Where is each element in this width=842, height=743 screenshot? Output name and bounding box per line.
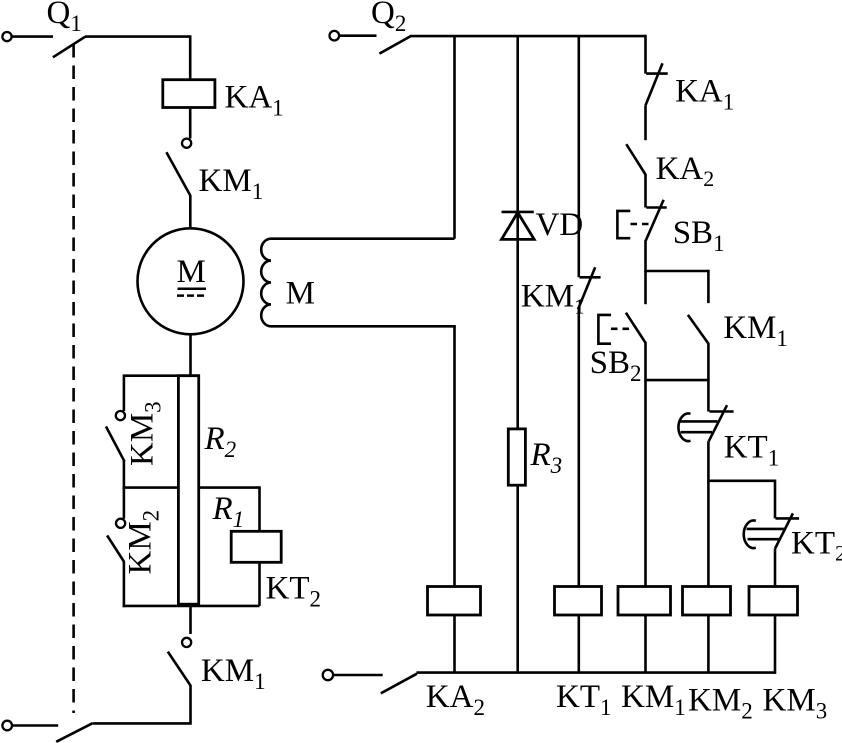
field winding M bbox=[261, 239, 456, 327]
wire bbox=[707, 481, 710, 587]
wire bbox=[12, 724, 58, 727]
svg-text:KM1: KM1 bbox=[723, 310, 788, 351]
contact KM1 (left column lower) bbox=[168, 652, 191, 686]
contact KT1 tick bar bbox=[709, 410, 733, 413]
wire bbox=[644, 343, 647, 381]
wire bbox=[12, 35, 53, 38]
node line top of resistor block bbox=[124, 374, 199, 377]
wire KT1 contact branch bbox=[707, 379, 710, 412]
contact KT2 delay arc bbox=[744, 520, 756, 548]
relay coil KT1 bbox=[555, 587, 602, 616]
contact KM1 NC blade bbox=[578, 267, 595, 309]
svg-text:SB1: SB1 bbox=[673, 215, 725, 256]
node line middle left bbox=[123, 486, 179, 489]
wire bbox=[516, 485, 519, 672]
wire bbox=[123, 374, 126, 411]
bottom bus wire bbox=[417, 671, 776, 674]
relay coil KM3 bbox=[749, 587, 798, 616]
svg-text:KM1: KM1 bbox=[199, 163, 264, 204]
svg-text:KM3: KM3 bbox=[763, 683, 828, 724]
relay coil KA2 bbox=[428, 587, 481, 616]
wire bbox=[644, 105, 647, 140]
contact terminal circle bbox=[182, 139, 191, 148]
contact KT1 delay chords bbox=[679, 421, 717, 432]
wire bbox=[644, 174, 647, 208]
terminal lower-left bbox=[2, 721, 12, 731]
wire bbox=[189, 606, 192, 634]
svg-text:VD: VD bbox=[536, 207, 584, 243]
contact KT1 delay arc bbox=[678, 413, 690, 441]
wire bbox=[577, 309, 580, 586]
contact KM1 (left column upper) bbox=[166, 152, 190, 195]
svg-text:KM2: KM2 bbox=[123, 510, 164, 575]
wire KT2 contact branch bbox=[774, 480, 777, 519]
top bus wire bbox=[410, 35, 646, 38]
svg-text:KM1: KM1 bbox=[621, 679, 686, 720]
wire bbox=[93, 685, 191, 723]
node line KT2 branch bbox=[708, 479, 775, 482]
motor underline solid bbox=[178, 287, 207, 290]
button SB2 actuator dashed link bbox=[611, 327, 632, 330]
wire bbox=[774, 615, 777, 674]
wire bbox=[189, 108, 192, 139]
wire R1 branch bbox=[258, 486, 261, 531]
motor M armature circle bbox=[138, 228, 244, 334]
knife switch Q2 bbox=[379, 36, 410, 53]
contact KA1 NC tick bar bbox=[646, 72, 668, 75]
wire bbox=[707, 441, 710, 482]
contact KM1 NO blade bbox=[688, 315, 709, 344]
mechanical link dashed line bbox=[72, 44, 75, 713]
wire bbox=[123, 461, 126, 489]
relay coil KA1 bbox=[163, 80, 215, 108]
svg-text:Q2: Q2 bbox=[371, 0, 406, 36]
wire bbox=[644, 240, 647, 272]
node line middle right bbox=[199, 486, 260, 489]
button SB1 actuator bbox=[617, 211, 630, 238]
contact KT2 delay chords bbox=[747, 529, 784, 539]
button SB2 blade bbox=[626, 313, 646, 344]
relay coil KM2 bbox=[683, 587, 731, 616]
wire bbox=[707, 615, 710, 673]
wire bbox=[453, 326, 456, 586]
svg-text:SB2: SB2 bbox=[590, 345, 642, 386]
terminal upper-left bbox=[2, 32, 11, 41]
wire bbox=[258, 562, 261, 606]
svg-text:KA2: KA2 bbox=[656, 151, 715, 191]
contact terminal circle bbox=[116, 411, 125, 420]
contact KT2 blade bbox=[775, 513, 793, 548]
knife switch Q1 lower pole bbox=[56, 723, 92, 742]
contact KT1 blade bbox=[709, 405, 727, 441]
contact KA1 NC blade bbox=[646, 63, 663, 105]
contact KM1 NC tick bar bbox=[579, 276, 600, 279]
button SB1 actuator dashed link bbox=[631, 223, 653, 226]
contact terminal circle bbox=[182, 638, 191, 647]
svg-text:KA2: KA2 bbox=[426, 679, 485, 720]
svg-text:Q1: Q1 bbox=[47, 0, 82, 36]
svg-text:KA1: KA1 bbox=[675, 74, 734, 115]
contact KT2 tick bar bbox=[776, 517, 800, 520]
relay coil KM1 bbox=[618, 587, 671, 616]
svg-text:KT1: KT1 bbox=[724, 429, 780, 470]
wire bbox=[644, 380, 647, 586]
contact terminal circle bbox=[116, 519, 125, 528]
svg-text:KT1: KT1 bbox=[556, 679, 612, 720]
svg-text:KM2: KM2 bbox=[688, 683, 753, 724]
terminal lower-right bbox=[323, 670, 333, 680]
knife switch KA2 blade bbox=[381, 674, 417, 694]
node line bottom of resistor block bbox=[123, 605, 260, 608]
wire bbox=[644, 271, 647, 304]
wire bbox=[334, 674, 383, 677]
wire KA1 branch down bbox=[644, 35, 647, 74]
wire bbox=[453, 615, 456, 673]
wire bbox=[189, 195, 192, 228]
contact KM2 bbox=[107, 535, 124, 562]
svg-text:R2: R2 bbox=[204, 421, 237, 462]
wire KM1 self-hold branch bbox=[707, 270, 710, 303]
wire bbox=[707, 343, 710, 380]
svg-text:KT2: KT2 bbox=[791, 526, 842, 566]
wire bbox=[577, 615, 580, 673]
node line rejoin bbox=[646, 379, 709, 382]
svg-text:M: M bbox=[286, 276, 315, 312]
svg-text:KM1: KM1 bbox=[201, 653, 266, 694]
contact KA2 NO blade bbox=[626, 144, 645, 174]
wire bbox=[85, 35, 190, 38]
contact KM3 bbox=[106, 427, 125, 462]
resistor R2 bbox=[178, 376, 198, 605]
resistor R3 bbox=[508, 429, 525, 485]
wire bbox=[123, 486, 126, 518]
wire bbox=[123, 562, 126, 608]
button SB1 tick bar bbox=[646, 206, 666, 209]
diode VD triangle bbox=[502, 213, 535, 240]
node line junction to KM1 branch bbox=[646, 270, 709, 273]
wire bbox=[189, 334, 192, 376]
wire bbox=[189, 35, 192, 79]
svg-text:KM3: KM3 bbox=[125, 401, 166, 466]
diode VD cathode bar bbox=[502, 211, 534, 214]
relay coil KT2 bbox=[231, 531, 281, 562]
svg-text:R3: R3 bbox=[530, 437, 563, 478]
svg-text:R1: R1 bbox=[212, 491, 245, 532]
svg-text:M: M bbox=[177, 254, 206, 290]
wire KT1 branch down bbox=[577, 36, 580, 277]
knife switch Q1 upper pole bbox=[53, 37, 85, 58]
button SB2 actuator bbox=[598, 315, 611, 344]
wire bbox=[644, 615, 647, 673]
svg-text:KA1: KA1 bbox=[225, 80, 284, 121]
wire bbox=[339, 34, 376, 37]
wire bbox=[774, 549, 777, 587]
button SB1 blade bbox=[646, 200, 664, 241]
wire VD branch down bbox=[516, 36, 519, 429]
svg-text:KT2: KT2 bbox=[266, 571, 322, 612]
wire field branch down bbox=[453, 36, 456, 239]
terminal upper-right bbox=[330, 31, 340, 41]
motor underline dashed (DC symbol) bbox=[177, 294, 206, 297]
svg-text:KM1: KM1 bbox=[521, 279, 585, 319]
